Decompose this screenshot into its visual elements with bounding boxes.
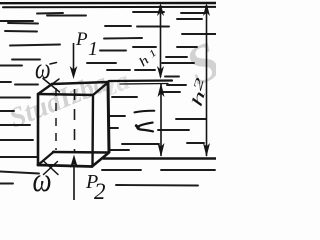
svg-text:P: P — [75, 29, 88, 50]
svg-text:1: 1 — [88, 38, 98, 60]
svg-text:ω: ω — [35, 52, 51, 85]
svg-text:2: 2 — [94, 179, 106, 200]
svg-text:ω: ω — [33, 160, 52, 199]
